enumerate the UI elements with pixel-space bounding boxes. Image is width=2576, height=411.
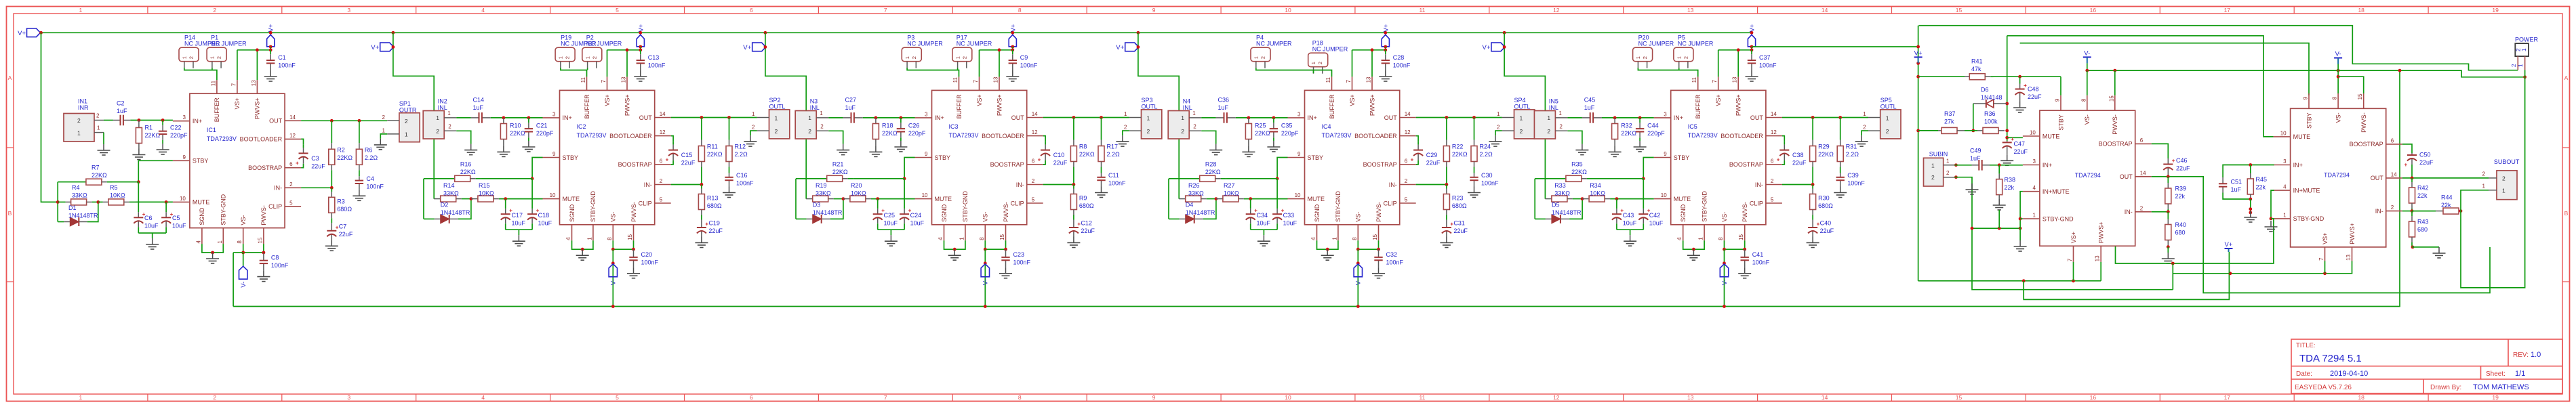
svg-text:100nF: 100nF — [1386, 259, 1404, 265]
power flag V+ — [380, 43, 394, 51]
wire VS- to V- rail — [233, 253, 234, 307]
svg-text:BOOSTRAP: BOOSTRAP — [2099, 141, 2133, 148]
svg-text:2: 2 — [1683, 56, 1689, 59]
svg-text:C49: C49 — [1970, 148, 1981, 154]
svg-text:C15: C15 — [681, 152, 693, 158]
svg-text:8: 8 — [979, 237, 985, 240]
svg-text:8: 8 — [1018, 394, 1022, 401]
pin 10 MUTE — [1654, 198, 1671, 200]
svg-text:9: 9 — [925, 151, 928, 157]
svg-text:MUTE: MUTE — [935, 196, 952, 202]
svg-text:22KΩ: 22KΩ — [1079, 151, 1095, 158]
pin 13 PWVS+ — [2352, 247, 2353, 261]
capacitor C29 22uF bootstrap — [1416, 136, 1418, 142]
wire L1 V+ to POWER — [1918, 26, 2518, 70]
svg-text:8: 8 — [607, 237, 613, 240]
pin 7 VS+ — [979, 77, 980, 90]
pin 3 IN+ — [2274, 165, 2291, 166]
svg-text:14: 14 — [660, 111, 666, 117]
svg-text:OUT: OUT — [1384, 114, 1398, 121]
svg-text:680Ω: 680Ω — [337, 206, 352, 213]
pin 6 BOOSTRAP — [655, 164, 671, 165]
svg-text:BUFFER: BUFFER — [956, 94, 963, 119]
ground — [331, 240, 332, 246]
wire V+ left vertical — [1918, 26, 1919, 281]
svg-text:Sheet:: Sheet: — [2486, 370, 2505, 378]
wire SGND bus — [1972, 228, 2020, 229]
svg-text:PWVS-: PWVS- — [1742, 202, 1748, 222]
ground — [1263, 235, 1264, 241]
pin 2 IN- — [1766, 184, 1782, 186]
svg-text:IN+: IN+ — [2293, 162, 2303, 169]
svg-text:C47: C47 — [2014, 141, 2026, 148]
svg-text:VS-: VS- — [982, 212, 989, 222]
wire STBY net — [1277, 158, 1287, 179]
pin 7 VS+ — [2325, 247, 2326, 261]
svg-text:R1: R1 — [145, 125, 153, 131]
svg-text:TITLE:: TITLE: — [2296, 342, 2316, 349]
svg-text:R9: R9 — [1079, 195, 1087, 202]
svg-text:2: 2 — [213, 7, 216, 14]
svg-text:OUT: OUT — [1750, 114, 1764, 121]
op-amp IC5 TDA7293V — [1671, 90, 1766, 224]
svg-text:10: 10 — [1285, 394, 1291, 401]
svg-text:IN-: IN- — [2125, 209, 2133, 215]
svg-text:C3: C3 — [311, 155, 319, 162]
svg-text:R24: R24 — [1480, 144, 1491, 150]
svg-text:16: 16 — [2090, 7, 2097, 14]
svg-text:IN+: IN+ — [193, 118, 202, 125]
svg-text:22uF: 22uF — [681, 160, 696, 167]
ground — [2019, 102, 2021, 108]
svg-text:R22: R22 — [1452, 144, 1464, 150]
svg-text:R25: R25 — [1255, 123, 1266, 129]
wire pin2 to ground — [456, 131, 471, 144]
svg-text:6: 6 — [750, 394, 753, 401]
resistor R13 680 — [701, 185, 702, 189]
svg-text:IN+: IN+ — [935, 114, 944, 121]
pin 10 MUTE — [2023, 135, 2040, 137]
svg-text:SP5: SP5 — [1880, 97, 1892, 104]
pin 14 OUT — [2135, 176, 2152, 177]
svg-text:C17: C17 — [512, 212, 523, 219]
svg-text:V+: V+ — [1483, 44, 1491, 51]
svg-text:SGND: SGND — [569, 204, 576, 222]
svg-text:220pF: 220pF — [536, 130, 554, 137]
svg-text:9: 9 — [1152, 394, 1156, 401]
svg-text:BOOSTRAP: BOOSTRAP — [618, 161, 652, 168]
svg-text:R37: R37 — [1944, 110, 1956, 117]
svg-text:CLIP: CLIP — [1384, 200, 1397, 207]
capacitor C45 1uF input — [1567, 117, 1582, 118]
svg-text:22KΩ: 22KΩ — [1818, 151, 1834, 158]
svg-text:5: 5 — [1771, 197, 1774, 203]
ground — [890, 235, 891, 241]
svg-text:V-: V- — [2335, 51, 2341, 58]
svg-text:R6: R6 — [365, 146, 373, 153]
wire caps to ground — [506, 229, 532, 230]
svg-text:8: 8 — [2080, 98, 2087, 102]
wire pin1 to ground — [103, 133, 104, 144]
svg-text:PWVS-: PWVS- — [260, 205, 267, 225]
power flag V- — [984, 261, 987, 265]
wire VS-/PWVS- net — [985, 240, 1005, 249]
svg-text:4: 4 — [938, 237, 944, 240]
svg-text:SP2: SP2 — [769, 97, 781, 104]
svg-text:2: 2 — [382, 114, 385, 121]
svg-text:7: 7 — [1346, 79, 1352, 83]
wire diode to junction — [87, 202, 98, 221]
wire IN+MUTE/STBY-GND tie — [2020, 192, 2023, 240]
svg-text:VS-: VS- — [1355, 212, 1362, 222]
pin 3 IN+ — [2023, 165, 2040, 166]
svg-text:22KΩ: 22KΩ — [832, 169, 848, 175]
svg-text:PWVS-: PWVS- — [630, 202, 637, 222]
svg-text:C14: C14 — [473, 97, 485, 104]
resistor R32 22K — [1614, 118, 1615, 124]
wire pin2 to ground — [828, 131, 843, 144]
svg-text:22uF: 22uF — [1820, 228, 1834, 234]
svg-text:2: 2 — [1771, 178, 1774, 184]
svg-text:22k: 22k — [2441, 202, 2451, 209]
resistor R7 22K — [58, 181, 86, 183]
wire R43 ground — [2411, 246, 2415, 249]
svg-text:1: 1 — [2520, 48, 2527, 51]
resistor R19 33K — [806, 198, 813, 200]
ground — [1693, 249, 1694, 255]
ground — [2250, 211, 2251, 217]
svg-text:C51: C51 — [2231, 179, 2242, 186]
svg-text:C48: C48 — [2028, 86, 2039, 93]
wire VS-/PWVS- net — [1358, 240, 1378, 249]
svg-text:IC2: IC2 — [577, 123, 586, 130]
svg-text:C41: C41 — [1752, 251, 1764, 258]
svg-text:12: 12 — [660, 129, 666, 135]
pin 2 IN- — [2135, 211, 2152, 213]
capacitor C19 22uF — [701, 220, 702, 228]
pin 10 MUTE — [543, 198, 560, 200]
wire IN+ net — [1236, 117, 1288, 118]
svg-text:1: 1 — [2032, 213, 2036, 219]
svg-text:C9: C9 — [1020, 54, 1028, 61]
svg-text:2: 2 — [1147, 128, 1150, 135]
svg-text:BOOTLOADER: BOOTLOADER — [1720, 133, 1763, 139]
capacitor C11 100nF — [1101, 173, 1102, 177]
svg-text:6: 6 — [750, 7, 753, 14]
svg-text:12: 12 — [1553, 394, 1560, 401]
svg-text:3: 3 — [2032, 158, 2036, 165]
svg-text:C19: C19 — [708, 220, 720, 227]
wire MUTE net — [136, 201, 173, 202]
wire jumpers to BUFFER — [184, 68, 217, 80]
svg-text:14: 14 — [1822, 394, 1828, 401]
svg-text:4: 4 — [195, 240, 201, 244]
svg-text:12: 12 — [289, 133, 296, 139]
svg-text:10KΩ: 10KΩ — [110, 192, 125, 199]
pin 2 — [387, 120, 399, 121]
wire diode cathode — [1973, 104, 1974, 131]
pin 15 PWVS- — [2114, 95, 2116, 110]
svg-text:10uF: 10uF — [884, 220, 898, 227]
svg-text:R35: R35 — [1571, 160, 1583, 167]
resistor R26 33K — [1179, 198, 1186, 200]
svg-text:22uF: 22uF — [1453, 228, 1468, 234]
resistor R25 22K — [1248, 118, 1249, 124]
ground — [2167, 247, 2169, 253]
pin 1 STBY-GND — [1704, 225, 1705, 241]
svg-text:SGND: SGND — [199, 207, 205, 225]
svg-text:4: 4 — [2283, 184, 2287, 190]
pin 6 BOOSTRAP — [1766, 164, 1782, 165]
svg-text:1: 1 — [77, 130, 81, 137]
svg-text:IN+: IN+ — [2042, 162, 2052, 169]
svg-text:IN-: IN- — [1755, 181, 1763, 188]
svg-text:1: 1 — [1253, 56, 1260, 59]
svg-text:C50: C50 — [2419, 152, 2431, 158]
pin 8 VS- — [243, 228, 244, 244]
svg-text:STBY: STBY — [1308, 154, 1324, 161]
svg-text:1/1: 1/1 — [2515, 370, 2525, 378]
pin 8 VS- — [1357, 225, 1359, 241]
pin 8 VS- — [984, 225, 986, 241]
svg-text:10uF: 10uF — [512, 220, 526, 227]
svg-text:15: 15 — [257, 237, 263, 243]
ground — [1998, 199, 2000, 205]
pin 8 VS- — [612, 225, 613, 241]
svg-text:NC JUMPER: NC JUMPER — [1312, 46, 1348, 53]
svg-text:100nF: 100nF — [271, 262, 289, 269]
svg-text:680Ω: 680Ω — [707, 202, 722, 209]
svg-text:1: 1 — [1558, 110, 1562, 116]
svg-text:EASYEDA V5.7.26: EASYEDA V5.7.26 — [2295, 384, 2352, 391]
wire OUT net — [301, 120, 387, 121]
wire SGND/STBY-GND to ground — [572, 240, 593, 249]
svg-text:2: 2 — [188, 56, 195, 59]
ground — [701, 237, 702, 243]
svg-text:33KΩ: 33KΩ — [443, 190, 459, 197]
wire V+ to VS+/PWVS+ — [1385, 47, 1386, 50]
svg-text:15: 15 — [999, 234, 1005, 240]
wire V- to VS-/PWVS- — [2087, 63, 2088, 70]
capacitor C30 100nF — [1474, 173, 1475, 177]
svg-text:PWVS+: PWVS+ — [1735, 94, 1742, 116]
svg-text:STBY-GND: STBY-GND — [1335, 191, 1342, 222]
capacitor C43 10uF — [1616, 199, 1617, 209]
resistor R31 2.2 — [1840, 118, 1841, 140]
svg-text:2: 2 — [96, 113, 100, 119]
svg-text:MUTE: MUTE — [2293, 133, 2311, 140]
pin 4 SGND — [571, 225, 573, 241]
svg-text:14: 14 — [289, 114, 296, 121]
pin 2 — [2517, 56, 2518, 70]
svg-text:+: + — [2172, 158, 2175, 164]
svg-text:TOM MATHEWS: TOM MATHEWS — [2473, 383, 2529, 391]
resistor R9 680 — [1073, 185, 1074, 189]
svg-text:2: 2 — [775, 128, 778, 135]
svg-text:2: 2 — [808, 128, 811, 135]
pin 3 IN+ — [1288, 117, 1305, 118]
power flag V+ — [1491, 43, 1505, 51]
pin 5 CLIP — [285, 206, 301, 207]
svg-text:2.2Ω: 2.2Ω — [735, 151, 748, 158]
svg-text:BOOTLOADER: BOOTLOADER — [240, 136, 283, 143]
svg-text:OUT: OUT — [2371, 175, 2384, 181]
svg-text:22KΩ: 22KΩ — [145, 132, 161, 139]
pin 7 VS+ — [607, 77, 608, 90]
ground — [1215, 144, 1217, 150]
svg-text:100k: 100k — [1984, 118, 1998, 125]
svg-text:C25: C25 — [884, 212, 895, 219]
svg-text:4: 4 — [1310, 237, 1316, 240]
svg-text:V+: V+ — [268, 24, 275, 32]
ground — [138, 149, 140, 155]
svg-text:2: 2 — [591, 56, 597, 59]
ground — [2019, 240, 2021, 246]
svg-text:9: 9 — [1152, 7, 1156, 14]
pin 1 — [387, 133, 399, 135]
ground — [528, 141, 529, 147]
svg-text:R41: R41 — [1971, 58, 1983, 65]
pin 14 OUT — [1027, 117, 1043, 118]
capacitor C4 100nF — [359, 176, 360, 180]
svg-text:C34: C34 — [1257, 212, 1268, 219]
svg-text:BUFFER: BUFFER — [214, 98, 220, 123]
svg-text:NC JUMPER: NC JUMPER — [1256, 41, 1292, 47]
svg-text:1: 1 — [1181, 114, 1184, 121]
wire L3 STBY net rail — [2020, 43, 2309, 95]
svg-text:1N4148TR: 1N4148TR — [813, 209, 843, 216]
svg-text:33KΩ: 33KΩ — [1188, 190, 1204, 197]
svg-text:R18: R18 — [882, 123, 893, 129]
svg-text:BOOSTRAP: BOOSTRAP — [1363, 161, 1397, 168]
svg-text:22uF: 22uF — [2028, 93, 2042, 100]
svg-text:9: 9 — [182, 154, 186, 160]
wire V+ link row — [2024, 274, 2229, 300]
capacitor C31 22uF — [1446, 220, 1447, 228]
svg-text:MUTE: MUTE — [1308, 196, 1325, 202]
svg-text:VS-: VS- — [240, 215, 247, 225]
ground — [1474, 187, 1475, 193]
wire left bias — [795, 179, 797, 219]
resistor R43 680 — [2411, 211, 2413, 216]
svg-text:1: 1 — [959, 237, 965, 240]
svg-text:5: 5 — [1032, 197, 1035, 203]
resistor R40 680 — [2167, 212, 2169, 219]
svg-text:1N4148TR: 1N4148TR — [68, 213, 98, 219]
svg-text:R36: R36 — [1984, 110, 1996, 117]
svg-text:STBY: STBY — [2057, 114, 2064, 131]
svg-text:2: 2 — [1547, 128, 1550, 135]
svg-text:V-: V- — [1355, 279, 1363, 285]
svg-text:R29: R29 — [1818, 144, 1830, 150]
svg-text:BUFFER: BUFFER — [1329, 94, 1335, 119]
svg-text:13: 13 — [1687, 7, 1694, 14]
svg-text:1uF: 1uF — [473, 104, 484, 111]
diode D5 1N4148TR — [1535, 218, 1546, 219]
svg-text:STBY: STBY — [935, 154, 951, 161]
wire V+ top rail — [41, 32, 1752, 33]
ground — [954, 249, 955, 255]
svg-text:5: 5 — [289, 200, 293, 206]
svg-text:SGND: SGND — [1314, 204, 1321, 222]
wire VS-/PWVS- net — [1725, 240, 1745, 249]
svg-text:+: + — [666, 157, 669, 163]
pin 1 — [1555, 117, 1567, 118]
wire V+ to VS+/PWVS+ — [270, 47, 271, 50]
pin 13 PWVS+ — [999, 77, 1000, 90]
pin 11 BUFFER — [216, 80, 218, 93]
ground — [1378, 267, 1380, 274]
svg-text:V+: V+ — [2225, 241, 2233, 248]
svg-text:10: 10 — [1285, 7, 1291, 14]
svg-text:BOOTLOADER: BOOTLOADER — [1354, 133, 1397, 139]
svg-text:7: 7 — [230, 83, 237, 86]
resistor R18 22K — [875, 118, 877, 124]
pin 7 VS+ — [237, 80, 238, 93]
pin 13 PWVS+ — [1737, 77, 1739, 90]
wire IN-1 net — [2152, 211, 2169, 213]
pin 5 CLIP — [1027, 202, 1043, 204]
wire PGND drop — [2172, 263, 2173, 290]
svg-text:R38: R38 — [2005, 177, 2016, 183]
ground — [2007, 154, 2008, 160]
svg-text:2: 2 — [1863, 125, 1866, 131]
resistor R1 22K — [138, 121, 140, 128]
ground — [1273, 141, 1274, 147]
power flag V+ — [752, 43, 766, 51]
pin 6 BOOSTRAP — [2135, 143, 2152, 144]
svg-text:4: 4 — [1676, 237, 1683, 240]
capacitor C37 100nF — [1751, 50, 1752, 54]
svg-text:4: 4 — [565, 237, 571, 240]
wire caps to ground — [1251, 229, 1277, 230]
capacitor C21 220pF — [528, 118, 529, 123]
svg-text:14: 14 — [1405, 111, 1411, 117]
wire V+ to VS+/PWVS+ — [1012, 47, 1013, 50]
ground — [1073, 237, 1074, 243]
svg-text:STBY-GND: STBY-GND — [2293, 215, 2325, 222]
svg-text:BOOTLOADER: BOOTLOADER — [982, 133, 1024, 139]
capacitor C16 100nF — [729, 173, 730, 177]
wire V+ rail ch5 to sub — [1752, 46, 1919, 47]
svg-text:+: + — [296, 160, 299, 166]
svg-text:C8: C8 — [271, 255, 279, 261]
svg-text:1: 1 — [2502, 187, 2505, 194]
ground — [152, 238, 153, 244]
ground — [1495, 135, 1496, 142]
svg-text:13: 13 — [2095, 255, 2101, 261]
svg-text:BUFFER: BUFFER — [1695, 94, 1702, 119]
svg-text:V+: V+ — [637, 24, 645, 32]
ground — [900, 141, 902, 147]
pin 12 BOOTLOADER — [285, 138, 301, 139]
pin 1 — [94, 132, 104, 133]
svg-text:MUTE: MUTE — [1674, 196, 1691, 202]
svg-text:14: 14 — [1822, 7, 1828, 14]
svg-text:PWVS-: PWVS- — [1003, 202, 1009, 222]
diode D4 1N4148TR — [1169, 218, 1180, 219]
svg-text:22uF: 22uF — [1053, 160, 1068, 167]
svg-text:1: 1 — [775, 114, 778, 121]
wire left bias — [423, 179, 424, 219]
svg-text:3: 3 — [552, 111, 556, 117]
capacitor C25 10uF — [877, 199, 879, 209]
capacitor C8 100nF — [263, 253, 264, 261]
svg-text:7: 7 — [884, 394, 887, 401]
pin 9 STBY — [2060, 95, 2061, 110]
wire speaker pin to ground — [380, 134, 387, 139]
ground — [1122, 135, 1123, 142]
